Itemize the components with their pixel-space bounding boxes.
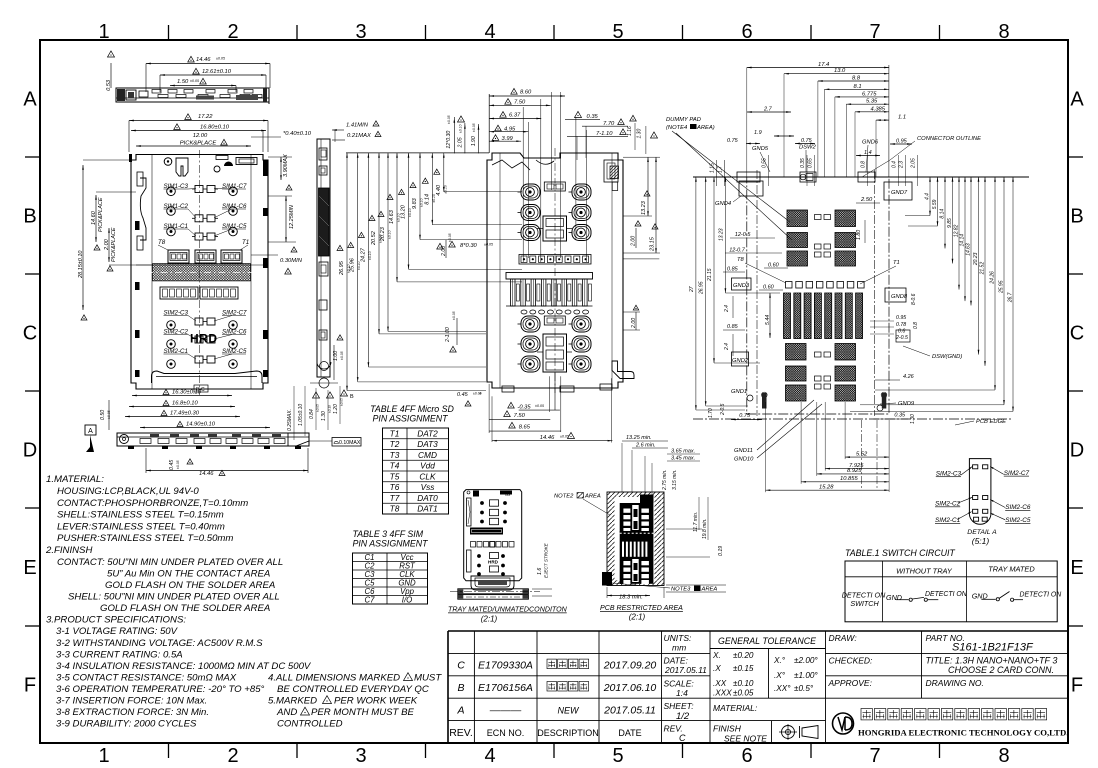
company name chinese	[861, 709, 872, 720]
svg-text:0.85: 0.85	[727, 267, 739, 273]
pcb bottom dim chain	[845, 456, 889, 458]
svg-text:0.45: 0.45	[169, 460, 175, 470]
svg-text:I/O: I/O	[402, 596, 412, 605]
svg-text:0.4: 0.4	[892, 161, 898, 168]
svg-text:PIN ASSIGNMENT: PIN ASSIGNMENT	[373, 414, 449, 424]
svg-text:28.15±0.10: 28.15±0.10	[78, 250, 84, 279]
general tolerance box	[710, 648, 826, 650]
svg-text:27: 27	[689, 286, 695, 293]
svg-text:DATE:: DATE:	[664, 656, 689, 666]
middle dims right side	[647, 157, 649, 216]
svg-text:AREA: AREA	[584, 494, 601, 500]
svg-text:C: C	[1070, 323, 1084, 345]
pcb bottom pads rows	[786, 344, 807, 361]
svg-text:±0.05: ±0.05	[472, 123, 476, 132]
svg-text:0.35: 0.35	[894, 413, 906, 419]
side view top left end blocks	[117, 89, 125, 101]
middle dims top left stack	[489, 95, 565, 97]
svg-text:8.65: 8.65	[519, 425, 531, 431]
third angle projection symbol	[782, 726, 795, 739]
pcb bottom vertical dashdot	[861, 420, 863, 490]
svg-text:26.95: 26.95	[339, 260, 345, 276]
svg-text:PUSHER:STAINLESS STEEL T=0.5: PUSHER:STAINLESS STEEL T=0.50mm	[57, 533, 233, 544]
svg-text:8.60: 8.60	[520, 90, 532, 96]
svg-text:14.90±0.10: 14.90±0.10	[186, 422, 216, 428]
pcb middle small pad pairs top	[815, 215, 822, 220]
pcb right dim fan	[929, 177, 931, 216]
pcb top edge pads	[737, 172, 760, 182]
svg-text:3-2 WITHSTANDING VOLTAGE: A: 3-2 WITHSTANDING VOLTAGE: AC500V R.M.S	[56, 638, 263, 649]
svg-text:25.96: 25.96	[350, 257, 356, 273]
svg-text:23.15: 23.15	[649, 236, 655, 252]
svg-text:(2:1): (2:1)	[481, 615, 498, 624]
dimension 18.3 min	[607, 595, 650, 597]
svg-text:T8: T8	[158, 239, 166, 246]
side view top profile body	[116, 88, 269, 102]
svg-text:PCB EDGE: PCB EDGE	[976, 419, 1006, 425]
svg-text:2017.06.10: 2017.06.10	[603, 682, 657, 694]
svg-text:MUST: MUST	[414, 673, 442, 684]
svg-text:1.05±0.10: 1.05±0.10	[298, 404, 304, 426]
main view pick fork	[176, 158, 188, 176]
middle view oval contacts top rows	[521, 184, 540, 200]
svg-text:C: C	[679, 733, 686, 743]
tray mated left rail	[467, 498, 472, 526]
svg-text:APPROVE:: APPROVE:	[828, 678, 873, 688]
tray mated middle small rects row	[471, 542, 476, 548]
svg-text:CLK: CLK	[419, 471, 436, 481]
pcb gnd labeled pads left	[732, 278, 752, 290]
datum A flag	[85, 425, 96, 435]
svg-text:DETECTI ON: DETECTI ON	[925, 591, 967, 598]
svg-text:HOUSING:LCP,BLACK,UL 94V-0: HOUSING:LCP,BLACK,UL 94V-0	[57, 486, 199, 497]
svg-text:±0.10: ±0.10	[459, 124, 463, 133]
svg-text:TABLE 4FF Micro SD: TABLE 4FF Micro SD	[370, 404, 454, 414]
svg-text:CONTACT:PHOSPHORBRONZE,T=0.10m: CONTACT:PHOSPHORBRONZE,T=0.10mm	[57, 498, 248, 509]
svg-text:DETAIL A: DETAIL A	[967, 529, 997, 536]
svg-text:B: B	[457, 682, 464, 694]
svg-text:2.4: 2.4	[724, 305, 730, 313]
svg-text:X.°: X.°	[773, 656, 786, 665]
svg-text:7.50: 7.50	[514, 100, 526, 106]
svg-text:6.37: 6.37	[509, 113, 521, 119]
svg-text:7.50: 7.50	[514, 413, 526, 419]
svg-text:1.30: 1.30	[321, 411, 327, 421]
svg-text:SIM2-C1: SIM2-C1	[935, 517, 961, 524]
svg-text:SIM2-C2: SIM2-C2	[935, 501, 961, 508]
triangles below strip	[313, 392, 320, 398]
svg-text:1.20: 1.20	[333, 404, 339, 414]
svg-text:NOTE2: NOTE2	[554, 494, 574, 500]
svg-text:SIM2-C3: SIM2-C3	[936, 470, 962, 477]
svg-text:3-8 EXTRACTION FORCE: 3N M: 3-8 EXTRACTION FORCE: 3N Min.	[56, 707, 209, 718]
svg-text:T1: T1	[893, 260, 900, 266]
pcb restricted inner white area	[615, 497, 655, 580]
company logo	[833, 713, 854, 734]
svg-text:3-9 DURABILITY: 2000 CYCLES: 3-9 DURABILITY: 2000 CYCLES	[56, 719, 197, 730]
svg-text:0.8: 0.8	[913, 322, 919, 329]
svg-text:B: B	[23, 206, 36, 228]
svg-text:T8: T8	[737, 257, 745, 263]
detail A pads	[973, 465, 978, 469]
svg-text:14.60: 14.60	[91, 210, 97, 225]
svg-text:1.MATERIAL:: 1.MATERIAL:	[46, 474, 104, 485]
svg-text:DAT0: DAT0	[417, 493, 438, 503]
svg-text:DETECTI ON: DETECTI ON	[1020, 592, 1062, 599]
svg-text:2.7: 2.7	[763, 107, 773, 113]
svg-text:4.95: 4.95	[504, 126, 516, 132]
svg-text:18.3 min.: 18.3 min.	[619, 595, 643, 601]
svg-text:DRAW:: DRAW:	[829, 633, 858, 643]
svg-text:8.925: 8.925	[847, 468, 862, 474]
svg-text:GOLD FLASH ON THE SOLDER: GOLD FLASH ON THE SOLDER AREA	[105, 580, 275, 591]
tray mated contact dots and pads upper	[480, 501, 484, 505]
svg-text:0.78: 0.78	[896, 322, 906, 328]
svg-text:26.95: 26.95	[699, 281, 705, 295]
svg-text:HONGRIDA ELECTRONIC TECHNOLO: HONGRIDA ELECTRONIC TECHNOLOGY CO,LTD.	[858, 728, 1068, 738]
0.10MAX flag	[332, 438, 361, 447]
svg-text:DUMMY PAD: DUMMY PAD	[666, 117, 701, 123]
svg-text:GND3: GND3	[733, 283, 750, 289]
svg-text:3.15 min.: 3.15 min.	[672, 469, 678, 490]
svg-text:0.8: 0.8	[861, 161, 867, 168]
svg-text:WITHOUT TRAY: WITHOUT TRAY	[896, 567, 953, 576]
svg-text:A: A	[1070, 89, 1084, 111]
svg-text:T8: T8	[390, 504, 400, 514]
svg-text:1.15: 1.15	[710, 163, 716, 173]
tray mated base plate	[458, 589, 529, 594]
svg-text:0.50: 0.50	[100, 410, 106, 420]
svg-text:HRD: HRD	[488, 560, 499, 565]
svg-text:5: 5	[612, 745, 623, 767]
svg-text:T6: T6	[390, 482, 400, 492]
middle view tiny oval row	[521, 310, 527, 314]
pcb tall striped pads	[784, 293, 791, 339]
svg-text:1.6: 1.6	[537, 568, 543, 575]
bottom contact blocks row	[168, 250, 189, 263]
svg-text:.XX: .XX	[713, 679, 727, 688]
svg-text:13.23: 13.23	[718, 228, 724, 241]
svg-text:GND1: GND1	[731, 389, 747, 395]
grid tick marks	[168, 25, 170, 40]
svg-text:3-6 OPERATION TEMPERATURE:: 3-6 OPERATION TEMPERATURE: -20° TO +85°	[56, 684, 265, 695]
svg-text:8: 8	[998, 745, 1009, 767]
svg-text:8: 8	[998, 21, 1009, 43]
svg-text:*0.40±0.10: *0.40±0.10	[283, 131, 312, 137]
svg-text:5.35: 5.35	[866, 99, 878, 105]
svg-text:0.19: 0.19	[718, 546, 724, 556]
svg-text:13.20: 13.20	[401, 204, 407, 219]
main view left dimensions	[95, 195, 97, 242]
svg-text:3.65 max.: 3.65 max.	[671, 449, 695, 455]
svg-text:0.45: 0.45	[457, 392, 469, 398]
svg-text:1.30: 1.30	[637, 129, 643, 139]
svg-text:4: 4	[484, 21, 495, 43]
svg-text:1.9: 1.9	[754, 130, 762, 136]
pcb right column pads crosshatched	[835, 210, 856, 227]
svg-text:(2:1): (2:1)	[629, 613, 646, 622]
svg-text:12.00: 12.00	[193, 133, 208, 139]
svg-text:0.65: 0.65	[808, 158, 814, 168]
svg-text:TRAY MATED/UNMATEDCONDITON: TRAY MATED/UNMATEDCONDITON	[448, 606, 568, 614]
main view dome	[224, 162, 233, 167]
svg-text:±0.10: ±0.10	[388, 230, 392, 239]
svg-text:Vss: Vss	[421, 482, 435, 492]
svg-text:GENERAL TOLERANCE: GENERAL TOLERANCE	[718, 636, 816, 646]
main view right edge black marks	[263, 160, 268, 176]
svg-text:2017.05.11: 2017.05.11	[664, 665, 707, 675]
svg-text:±0.10: ±0.10	[733, 679, 754, 688]
svg-text:0.95: 0.95	[896, 315, 906, 321]
svg-text:2-0.5: 2-0.5	[720, 403, 726, 416]
svg-text:DSW2: DSW2	[799, 145, 817, 151]
tray mated top details	[473, 491, 479, 497]
svg-text:15.28: 15.28	[819, 484, 834, 490]
main view small circle	[214, 166, 220, 172]
svg-text:T7: T7	[390, 493, 400, 503]
svg-text:4.ALL DIMENSIONS MARKED: 4.ALL DIMENSIONS MARKED	[268, 673, 400, 684]
svg-text:SIM2-C5: SIM2-C5	[1005, 517, 1031, 524]
pcb restricted hatched block	[607, 492, 664, 586]
dimension 2.00 mid	[445, 240, 447, 258]
svg-text:xxx: xxx	[505, 493, 511, 497]
middle view top center pads	[544, 182, 565, 191]
pcb centerlines vertical dashdot	[756, 170, 758, 416]
vertical dimension fan stack	[346, 153, 348, 391]
dimension 16.30	[132, 395, 232, 397]
svg-text:16.30±0.10: 16.30±0.10	[172, 390, 202, 396]
svg-text:±0.20: ±0.20	[733, 651, 754, 660]
svg-text:3-1 VOLTAGE RATING: 50V: 3-1 VOLTAGE RATING: 50V	[56, 626, 179, 637]
dimension 16.80	[131, 130, 266, 132]
svg-text:mm: mm	[672, 643, 686, 653]
svg-text:GND11: GND11	[734, 448, 753, 454]
svg-text:5U” Au Min ON THE CONTACT: 5U” Au Min ON THE CONTACT AREA	[107, 569, 270, 580]
svg-text:0.75: 0.75	[727, 138, 739, 144]
svg-text:TABLE.1 SWITCH CIRCUIT: TABLE.1 SWITCH CIRCUIT	[845, 548, 955, 558]
svg-text:3-4 INSULATION RESISTANCE:: 3-4 INSULATION RESISTANCE: 1000MΩ MIN AT…	[56, 661, 312, 672]
svg-text:4.4: 4.4	[925, 193, 931, 200]
svg-text:10.855: 10.855	[840, 476, 859, 482]
svg-text:1:4: 1:4	[676, 688, 688, 698]
svg-text:1.1: 1.1	[898, 115, 906, 121]
svg-text:PICK&PLACE: PICK&PLACE	[98, 197, 104, 232]
svg-text:DATE: DATE	[618, 728, 641, 738]
svg-text:HRD: HRD	[190, 332, 218, 346]
svg-text:14.63: 14.63	[389, 209, 395, 224]
svg-text:±0.5°: ±0.5°	[794, 684, 814, 693]
svg-text:REV.: REV.	[449, 727, 473, 739]
svg-text:1/2: 1/2	[676, 711, 690, 722]
main view centerline vertical	[199, 150, 201, 395]
svg-text:DRAWING NO.: DRAWING NO.	[926, 678, 984, 688]
units scale sheet column	[662, 652, 711, 654]
svg-text:A: A	[23, 89, 37, 111]
svg-text:T2: T2	[390, 439, 400, 449]
svg-text:GOLD FLASH ON THE SOLDER: GOLD FLASH ON THE SOLDER AREA	[100, 603, 270, 614]
svg-text:0.75: 0.75	[739, 413, 751, 419]
pcb restricted top pad group	[620, 503, 654, 533]
draw checked approve column	[825, 631, 827, 743]
svg-text:GND: GND	[886, 593, 902, 602]
svg-text:DAT1: DAT1	[417, 504, 438, 514]
svg-text:AREA: AREA	[701, 587, 718, 593]
svg-text:LEVER:STAINLESS STEEL T=0.40: LEVER:STAINLESS STEEL T=0.40mm	[57, 522, 225, 533]
detail A body	[969, 459, 991, 525]
main view left spring contact	[140, 178, 146, 240]
svg-text:———: ———	[489, 704, 522, 716]
dimension 0.53 vertical	[110, 63, 112, 88]
svg-text:C7: C7	[365, 596, 376, 605]
svg-text:TITLE: 1.3H NANO+NANO+TF 3: TITLE: 1.3H NANO+NANO+TF 3	[926, 656, 1058, 666]
svg-text:0.25MAX.: 0.25MAX.	[287, 409, 293, 431]
svg-text:12*0.30: 12*0.30	[446, 131, 452, 149]
svg-text:3.45 max.: 3.45 max.	[671, 456, 695, 462]
svg-text:E1709330A: E1709330A	[478, 660, 533, 672]
svg-text:FINISH: FINISH	[713, 724, 742, 734]
svg-text:DESCRIPTION: DESCRIPTION	[537, 728, 599, 738]
svg-text:2.50: 2.50	[860, 197, 873, 203]
svg-text:PIN ASSIGNMENT: PIN ASSIGNMENT	[353, 539, 429, 549]
svg-text:±0.05: ±0.05	[535, 404, 544, 408]
svg-text:0.35: 0.35	[800, 158, 806, 168]
svg-text:8-0.6: 8-0.6	[911, 293, 917, 305]
svg-text:1.30: 1.30	[910, 414, 916, 424]
svg-text:CONTACT: 50U”NI MIN UNDER: CONTACT: 50U”NI MIN UNDER PLATED OVER AL…	[57, 557, 283, 568]
svg-text:8.14: 8.14	[424, 194, 430, 205]
svg-text:20.23: 20.23	[973, 252, 979, 266]
svg-text:20.52: 20.52	[371, 231, 377, 246]
svg-text:MATERIAL:: MATERIAL:	[713, 703, 758, 713]
middle view oval contacts bottom rows	[521, 316, 540, 332]
dimension 14.46 top	[146, 63, 270, 65]
svg-text:±0.05: ±0.05	[216, 57, 225, 61]
vertical strip details	[319, 148, 327, 160]
svg-text:0.60: 0.60	[763, 285, 775, 291]
crosshatch solder band	[153, 264, 251, 281]
svg-text:2.00: 2.00	[630, 236, 636, 247]
svg-text:0.55: 0.55	[762, 158, 768, 168]
svg-text:D: D	[23, 440, 37, 462]
svg-text:7: 7	[869, 745, 880, 767]
svg-text:0.10MAX: 0.10MAX	[339, 440, 361, 446]
svg-text:4.385: 4.385	[871, 106, 886, 112]
main view inner frame lines	[151, 155, 153, 390]
svg-text:±0.05: ±0.05	[176, 460, 180, 469]
svg-text:T5: T5	[390, 471, 400, 481]
svg-text:(NOTE4: (NOTE4	[666, 125, 687, 131]
svg-text:14.63: 14.63	[966, 243, 972, 256]
svg-text:3.90MAX: 3.90MAX	[283, 154, 289, 177]
svg-text:±0.10: ±0.10	[420, 198, 424, 207]
svg-text:A: A	[456, 704, 464, 716]
svg-text:1.7: 1.7	[718, 166, 724, 173]
svg-text:1.4: 1.4	[864, 150, 872, 156]
svg-text:PER WORK WEEK: PER WORK WEEK	[334, 696, 418, 707]
section mark B-C	[194, 385, 208, 392]
svg-text:3.PRODUCT SPECIFICATIONS:: 3.PRODUCT SPECIFICATIONS:	[46, 615, 186, 626]
svg-text:.XXX: .XXX	[713, 689, 732, 698]
dimension 14.90	[140, 427, 270, 429]
svg-text:CHOOSE 2 CARD CONN.: CHOOSE 2 CARD CONN.	[948, 665, 1054, 675]
svg-text:PICK&PLACE: PICK&PLACE	[111, 227, 117, 262]
svg-text:AND: AND	[276, 707, 297, 718]
svg-text:±0.05: ±0.05	[484, 243, 493, 247]
pcb edge line	[693, 418, 1012, 420]
middle view comb structure	[506, 273, 593, 280]
side view top right end cap	[263, 88, 267, 102]
svg-text:2.05: 2.05	[911, 158, 917, 169]
svg-text:UNITS:: UNITS:	[664, 633, 693, 643]
svg-text:2.00: 2.00	[104, 238, 110, 251]
tray mated view body	[464, 490, 522, 581]
svg-text:Vdd: Vdd	[420, 461, 435, 471]
svg-text:21.15: 21.15	[707, 268, 713, 282]
middle view bottom tabs	[502, 386, 514, 392]
svg-text:2: 2	[227, 21, 238, 43]
svg-text:0.85: 0.85	[727, 324, 739, 330]
svg-text:4.40: 4.40	[436, 184, 442, 196]
svg-text:T1: T1	[242, 239, 249, 246]
svg-text:SHELL:STAINLESS STEEL T=0.15: SHELL:STAINLESS STEEL T=0.15mm	[57, 510, 224, 521]
pcb left dim fan	[695, 177, 697, 410]
svg-text:13.23: 13.23	[641, 200, 647, 215]
svg-text:9.83: 9.83	[412, 197, 418, 209]
revision table grid	[448, 652, 662, 654]
svg-text:26.7: 26.7	[1008, 292, 1014, 303]
svg-text:3-7 INSERTION FORCE: 10N M: 3-7 INSERTION FORCE: 10N Max.	[56, 696, 207, 707]
svg-text:TRAY MATED: TRAY MATED	[988, 565, 1035, 574]
svg-text:4.26: 4.26	[903, 374, 915, 380]
svg-text:14.46: 14.46	[540, 435, 555, 441]
card edge contact row below band	[160, 287, 198, 299]
pcb gnd labeled pads right	[885, 288, 906, 302]
svg-text:14.46: 14.46	[196, 57, 211, 63]
middle view outline	[487, 153, 623, 388]
svg-text:6.775: 6.775	[862, 91, 877, 97]
svg-text:2017.05.11: 2017.05.11	[603, 704, 656, 716]
svg-text:2: 2	[227, 745, 238, 767]
svg-text:PER MONTH MUST BE: PER MONTH MUST BE	[311, 707, 414, 718]
svg-text:±0.05: ±0.05	[448, 233, 452, 242]
svg-text:C: C	[23, 323, 37, 345]
svg-text:6: 6	[741, 21, 752, 43]
svg-text:BE CONTROLLED EVERYDAY QC: BE CONTROLLED EVERYDAY QC	[277, 684, 429, 695]
svg-text:ECN NO.: ECN NO.	[487, 728, 525, 738]
main view bottom tray bezel	[152, 371, 263, 383]
middle view bottom center pads	[544, 316, 565, 325]
svg-text:0.60: 0.60	[768, 263, 780, 269]
svg-text:A: A	[88, 428, 93, 435]
svg-text:0.30MIN: 0.30MIN	[280, 258, 303, 264]
svg-text:1.80: 1.80	[856, 230, 862, 240]
pcb left column pads crosshatched	[787, 210, 808, 227]
middle view lever hook bottom right	[612, 361, 634, 379]
svg-text:SWITCH: SWITCH	[850, 599, 879, 608]
svg-text:.X: .X	[713, 664, 721, 673]
svg-text:12-0.7: 12-0.7	[729, 248, 746, 254]
svg-text:3-3 CURRENT RATING: 0.5A: 3-3 CURRENT RATING: 0.5A	[56, 650, 183, 661]
svg-text:REV.: REV.	[664, 724, 683, 734]
svg-text:SHELL: 50U”NI MIN UNDER PL: SHELL: 50U”NI MIN UNDER PLATED OVER ALL	[68, 592, 280, 603]
svg-text:TABLE 3 4FF SIM: TABLE 3 4FF SIM	[353, 529, 424, 539]
svg-text:2-0.5: 2-0.5	[895, 335, 908, 341]
svg-text:2.4: 2.4	[724, 343, 730, 351]
svg-text:2017.09.20: 2017.09.20	[603, 660, 657, 672]
main view top right tab	[236, 158, 257, 165]
dimension 14.46 bottom	[146, 470, 308, 472]
svg-text:±0.05: ±0.05	[447, 115, 451, 124]
